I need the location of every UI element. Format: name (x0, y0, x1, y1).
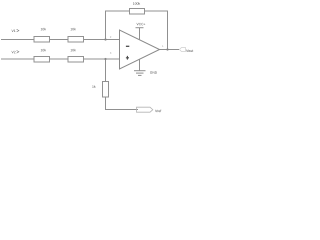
op-amp minus sign (126, 45, 129, 47)
hierarchical label Vout (180, 48, 186, 52)
wire input line 1 (1, 39, 120, 41)
label R4 value (71, 49, 76, 51)
junction node A (104, 38, 106, 40)
op-amp U1 (120, 30, 160, 69)
resistor R2 (68, 37, 84, 43)
resistor R3 (34, 57, 50, 63)
resistor R1 (34, 37, 50, 43)
label R3 value (41, 49, 46, 51)
pin number 1 (162, 45, 163, 47)
wire output (158, 49, 179, 51)
wire input line 2 (1, 58, 120, 60)
label R1 value (41, 28, 46, 30)
junction node C (166, 48, 168, 50)
op-amp plus sign (126, 56, 129, 60)
hierarchical label V1 (12, 30, 16, 32)
ground (139, 59, 141, 70)
label VCC (137, 23, 146, 25)
junction node B (104, 58, 106, 60)
wire bottom to Vref port (106, 97, 139, 110)
hierarchical label V2 (12, 51, 16, 53)
wire feedback loop (106, 11, 168, 50)
label GND (150, 71, 157, 73)
pin number 2 (110, 36, 111, 38)
resistor R5 feedback (130, 9, 145, 15)
label R5 value (133, 2, 140, 4)
hierarchical port Vref (137, 107, 153, 112)
label R2 value (71, 28, 76, 30)
power VCC (139, 28, 141, 39)
resistor R6 vertical (103, 82, 109, 98)
resistor R4 (68, 57, 84, 63)
wire branch to R5 (105, 59, 107, 82)
pin number 3 (110, 52, 111, 54)
label R6 value (92, 85, 95, 87)
